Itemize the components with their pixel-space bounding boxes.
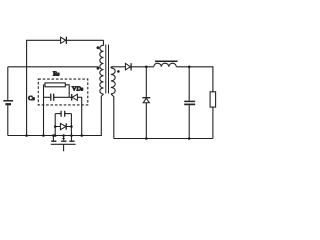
bottom primary rail xyxy=(8,94,104,136)
wire snubber left node xyxy=(43,85,45,136)
node dot reset-loop to rail xyxy=(25,134,28,137)
wire top reset loop xyxy=(27,40,104,135)
wire secondary top to inductor xyxy=(131,66,154,68)
wire Rs left xyxy=(44,84,46,86)
wire Rs right corner xyxy=(65,85,69,98)
wire secondary bottom lead xyxy=(111,94,114,139)
freewheel diode VD2 xyxy=(142,67,150,139)
node dot body rail xyxy=(62,134,65,137)
wire secondary top lead xyxy=(111,67,125,68)
MOSFET V gate lead xyxy=(63,144,65,151)
wire block left branch xyxy=(54,114,56,136)
node dot block right diode xyxy=(70,125,73,128)
polarity dot W2 xyxy=(117,70,120,73)
wire load bottom xyxy=(212,107,214,138)
node tap dot xyxy=(97,67,100,70)
svg-text:VDs: VDs xyxy=(72,85,83,92)
MOSFET V body plate xyxy=(61,140,66,142)
load resistor R xyxy=(210,92,216,107)
capacitor across switch xyxy=(55,111,71,117)
node dot block left diode xyxy=(54,125,57,128)
node dot cap top xyxy=(188,66,191,69)
diode VD1 xyxy=(125,63,131,70)
MOSFET V drain lead xyxy=(52,136,54,141)
diode VDs xyxy=(72,94,82,136)
node dot VD2 bottom xyxy=(145,137,148,140)
node dot VD2 top xyxy=(145,66,148,69)
node dot cap bottom xyxy=(188,137,191,140)
top rail from source xyxy=(8,66,99,68)
transformer primary winding W1 xyxy=(100,40,104,94)
transformer secondary winding W2 xyxy=(111,68,115,94)
battery E xyxy=(3,67,13,136)
resistor Rs xyxy=(45,83,65,87)
diode VD3 top xyxy=(61,37,67,44)
MOSFET V source lead xyxy=(71,136,73,141)
svg-text:Cs: Cs xyxy=(28,95,34,102)
MOSFET V drain plate xyxy=(51,140,56,142)
MOSFET V source plate xyxy=(69,140,74,142)
polarity dot W3 xyxy=(97,46,100,49)
transformer core xyxy=(106,45,109,94)
node dot block left rail xyxy=(54,134,57,137)
MOSFET V gate bar xyxy=(51,143,76,145)
node dot VDs to rail xyxy=(80,134,83,137)
MOSFET V body arrow xyxy=(62,136,65,141)
secondary bottom rail xyxy=(114,138,213,140)
node dot block right rail xyxy=(70,134,73,137)
snubber dashed box xyxy=(38,79,88,105)
wire block right branch xyxy=(70,114,72,136)
diode across switch xyxy=(55,123,71,130)
filter inductor L xyxy=(154,61,178,67)
wire inductor to load xyxy=(176,67,213,92)
svg-text:Rs: Rs xyxy=(53,70,59,77)
node dot drain rail xyxy=(52,134,55,137)
capacitor Cs xyxy=(44,94,72,101)
node dot snubber left to rail xyxy=(42,134,45,137)
output capacitor C xyxy=(184,67,195,139)
